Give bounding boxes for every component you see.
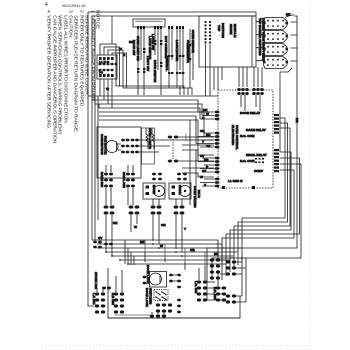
valve pin broil 2: [172, 192, 176, 195]
wire switch1 to right rail: [285, 15, 294, 18]
wire BK right rail: [207, 16, 297, 300]
svg-text:BROIL IGN: BROIL IGN: [122, 172, 126, 189]
svg-text:L.R. IGN: L.R. IGN: [194, 281, 198, 294]
motor lead wires: [173, 275, 177, 281]
power connector block: [97, 55, 117, 79]
svg-text:W: W: [119, 47, 122, 51]
electronic oven control dashed box: [218, 90, 273, 188]
fan motor leads: [118, 144, 121, 150]
junction dot right: [241, 257, 243, 259]
motor lead dots 2: [177, 274, 181, 289]
wire module to switches: [256, 22, 263, 61]
power connector pins row3: [98, 69, 113, 72]
eoc top connector wires down: [241, 95, 260, 111]
svg-text:CONVECTION: CONVECTION: [100, 134, 104, 155]
bottom wire long: [108, 317, 240, 319]
svg-text:N.O. COM: N.O. COM: [240, 134, 255, 138]
svg-text:DOOR LOCK: DOOR LOCK: [145, 288, 149, 308]
valve dot bake: [158, 190, 160, 192]
eoc pin wires left A: [198, 112, 214, 119]
eoc pin wires left B: [196, 133, 214, 147]
wire columns below clock: [138, 29, 183, 95]
bottom right wires: [220, 258, 246, 302]
svg-text:ELECTRONIC: ELECTRONIC: [231, 125, 235, 146]
fan connector group1: [121, 139, 129, 154]
svg-text:L.F. IGN: L.F. IGN: [92, 293, 96, 305]
oval connector row 3: [151, 205, 162, 214]
svg-text:BROIL: BROIL: [178, 185, 182, 195]
connector P1 top ovals: [237, 88, 249, 95]
notes text block: [45, 10, 99, 210]
clock box: [133, 19, 165, 27]
scan fold line vertical: [309, 2, 311, 346]
cluster right H lower: [226, 294, 236, 303]
gas valve circle bake: [154, 186, 165, 197]
motor line: [159, 274, 161, 284]
fan connector group2: [131, 139, 139, 154]
svg-text:GY: GY: [98, 236, 103, 240]
fan motor flat: [116, 142, 118, 152]
svg-text:BAKE IGN: BAKE IGN: [100, 172, 104, 188]
svg-text:BU: BU: [214, 252, 219, 256]
convection fan motor circle: [106, 141, 118, 153]
cluster below lock: [156, 303, 172, 312]
burner switch SW3: [263, 44, 288, 56]
power connector pins row4: [99, 74, 114, 77]
wire from top rail down: [111, 16, 113, 44]
svg-text:R.F. IGN: R.F. IGN: [111, 293, 115, 306]
svg-text:BK: BK: [113, 221, 118, 225]
vertical drops right cluster: [242, 262, 246, 302]
svg-text:SWITCHES: SWITCHES: [149, 288, 153, 304]
wire bundle eoc right 3: [234, 128, 290, 268]
bottom wire inner: [114, 314, 150, 316]
bundle horizontal mid 1: [88, 96, 218, 162]
door lock switch dashed box: [154, 290, 168, 301]
connector mid column b: [154, 62, 162, 67]
svg-text:W: W: [106, 87, 109, 91]
svg-text:L1 N G: L1 N G: [99, 60, 110, 64]
connector column x190: [189, 44, 194, 60]
svg-text:BAKE: BAKE: [152, 185, 156, 194]
svg-text:SPARK: SPARK: [229, 24, 233, 35]
svg-text:BK: BK: [295, 118, 299, 123]
junction dots sprinkle: [105, 243, 183, 265]
connector under clock right: [154, 26, 162, 29]
eoc pin wires left D: [200, 179, 214, 186]
wires cluster feeds: [97, 270, 164, 314]
burner switch SW2: [263, 31, 288, 43]
wires fan to eoc: [139, 137, 214, 161]
convection fan box: [97, 127, 141, 178]
wire left fourth vertical: [97, 96, 99, 220]
connector strip left edge C: [214, 157, 219, 174]
spark module box inner edge: [251, 16, 253, 67]
left small component: [102, 287, 111, 290]
svg-text:DOOR SW: DOOR SW: [132, 40, 136, 55]
svg-text:BAKE RELAY: BAKE RELAY: [246, 128, 267, 132]
gas valve box bake: [143, 183, 165, 199]
svg-text:TOP BURNER SWITCHES: TOP BURNER SWITCHES: [258, 18, 262, 56]
wire column x190: [190, 29, 193, 88]
cluster right F: [210, 258, 220, 279]
spark module pins col1: [204, 21, 206, 44]
connector mid column d: [168, 72, 184, 74]
svg-text:Y: Y: [184, 227, 187, 231]
wire bundle eoc right 7: [222, 170, 294, 280]
oval connector row 2: [129, 205, 140, 214]
svg-text:BK-R: BK-R: [197, 190, 201, 198]
clock box inner line: [136, 20, 163, 22]
bundle left steps: [95, 100, 99, 108]
connector mid column a2: [137, 68, 145, 73]
scan fold line horizontal: [42, 345, 312, 347]
eoc pin wires left C: [198, 158, 214, 172]
wires up from connector: [100, 44, 127, 88]
wire left outer vertical: [88, 12, 94, 306]
gas valve box broil: [169, 183, 191, 199]
motor leads: [169, 274, 173, 283]
connector strip left edge D: [214, 178, 219, 188]
svg-text:OVEN CONTROL: OVEN CONTROL: [235, 125, 239, 150]
svg-text:W: W: [200, 175, 203, 179]
svg-text:BK: BK: [203, 108, 208, 112]
cluster bottom A: [95, 292, 105, 313]
wire N inner top: [92, 15, 256, 17]
wire bundle eoc right 5: [226, 158, 300, 276]
bundle horizontal low 1: [92, 240, 218, 258]
staircase wires to eoc: [182, 145, 214, 177]
cluster bottom B: [114, 292, 124, 313]
wire bundle eoc right 4: [230, 152, 291, 272]
thermal fuse ticks: [186, 133, 190, 141]
wire L1 outer top: [88, 12, 256, 16]
svg-text:N.O. COM: N.O. COM: [240, 159, 255, 163]
svg-text:LATCH SW: LATCH SW: [151, 34, 155, 50]
svg-text:THERMAL: THERMAL: [165, 56, 169, 71]
bottom wires cluster D feeds: [207, 282, 226, 300]
bundle drops low: [106, 220, 182, 265]
connector mid column a: [137, 48, 145, 53]
eoc inner pin grid: [255, 158, 264, 163]
valve dot broil: [184, 190, 186, 192]
svg-text:MODULE: MODULE: [233, 24, 237, 37]
cluster bottom D (right group): [197, 280, 207, 301]
connector pair right of clock: [168, 26, 184, 29]
spark module box: [199, 16, 256, 67]
power connector pins row1: [99, 57, 114, 60]
motor lead lower dots: [177, 299, 181, 314]
svg-text:OR: OR: [190, 248, 195, 252]
wires from connector down: [100, 79, 112, 108]
wires below ovals: [106, 215, 182, 236]
door lock motor box: [150, 272, 167, 288]
power connector pins row2: [98, 63, 117, 66]
svg-text:DOOR RELAY: DOOR RELAY: [240, 111, 261, 115]
wire bundle eoc right 6: [212, 164, 301, 280]
wire bundle eoc right 2: [238, 123, 288, 265]
motor input ovals: [143, 276, 147, 285]
cluster bottom E: [216, 286, 226, 301]
lock switch dots: [155, 291, 167, 300]
burner switch SW1: [263, 18, 288, 30]
svg-text:W: W: [134, 225, 137, 229]
spark module pins col2: [209, 21, 211, 44]
spark module feed wires: [206, 44, 263, 96]
svg-text:CONV: CONV: [254, 169, 264, 173]
svg-text:FAN MOTOR: FAN MOTOR: [104, 136, 108, 155]
dashed wire vertical: [172, 139, 174, 159]
svg-text:HOT SURFACE: HOT SURFACE: [164, 36, 168, 58]
oval connector row 4: [174, 205, 185, 214]
svg-text:OR: OR: [200, 129, 205, 133]
wire left third vertical: [94, 20, 96, 240]
lock switch contacts: [156, 292, 166, 300]
connector strip right edge B: [274, 149, 279, 172]
wires ignitor drops: [106, 188, 182, 205]
part number: [62, 4, 86, 8]
node junction top: [94, 19, 96, 21]
wire bundle eoc right 1: [242, 118, 285, 262]
cluster bottom C: [150, 314, 166, 317]
connector mid column b2: [154, 40, 162, 45]
bundle horizontal low 2: [97, 244, 242, 264]
resistor squiggle column: [146, 128, 154, 150]
wires above clusters: [106, 165, 133, 172]
svg-text:DOOR LOCK: DOOR LOCK: [146, 265, 150, 285]
connector strip left edge B: [214, 132, 219, 149]
junction dots low: [152, 239, 154, 241]
valve pin broil: [172, 186, 176, 189]
connector cluster at bundle: [93, 241, 113, 249]
connector strip right edge A: [274, 114, 279, 134]
connector mid column c: [168, 55, 184, 57]
svg-text:BROIL RELAY: BROIL RELAY: [246, 153, 268, 157]
dots bottom dashed edge: [222, 186, 225, 189]
svg-text:BK: BK: [140, 240, 145, 244]
valve pin bake: [146, 186, 150, 189]
vertical feeds from bundle: [145, 252, 234, 286]
wire switch outputs to rail: [291, 22, 298, 61]
connector under clock left: [137, 26, 145, 29]
wire switch4 down rail: [280, 68, 292, 152]
svg-text:SENSOR: SENSOR: [186, 44, 190, 58]
svg-text:W: W: [160, 244, 163, 248]
svg-text:L1 GND N: L1 GND N: [228, 179, 243, 183]
svg-text:TOP: TOP: [217, 25, 221, 31]
connector P2 top ovals: [252, 88, 264, 95]
wires bundle lower right run: [116, 86, 192, 95]
cluster right G: [226, 260, 236, 275]
burner switch SW4: [263, 57, 288, 69]
svg-text:LOCK MOTOR: LOCK MOTOR: [175, 40, 179, 62]
svg-text:R: R: [123, 53, 126, 57]
gas valve circle broil: [180, 186, 191, 197]
bundle stair corners: [145, 240, 205, 266]
connector strip left edge A: [214, 111, 219, 121]
svg-text:P9: P9: [99, 71, 103, 75]
cluster: broil ignitor connector: [126, 173, 135, 188]
cluster: bake ignitor connector: [104, 173, 113, 188]
connector pair mid: [168, 136, 178, 163]
valve pin bake 2: [146, 192, 150, 195]
valve input ovals broil: [177, 173, 187, 181]
wire vertical to group4: [190, 120, 196, 205]
oval connector row 1: [104, 205, 115, 214]
valve input ovals bake: [152, 173, 162, 181]
svg-text:SPARK IGN: SPARK IGN: [94, 272, 98, 290]
svg-text:LIGHT SW: LIGHT SW: [146, 56, 150, 71]
page number: [45, 2, 48, 8]
wire left inner vertical: [91, 16, 93, 240]
resistor box: [142, 128, 155, 164]
svg-text:OR: OR: [161, 223, 166, 227]
bottom enclosure box: [108, 268, 240, 318]
svg-text:IGNITORS: IGNITORS: [221, 23, 225, 38]
door lock motor circle: [150, 273, 162, 285]
